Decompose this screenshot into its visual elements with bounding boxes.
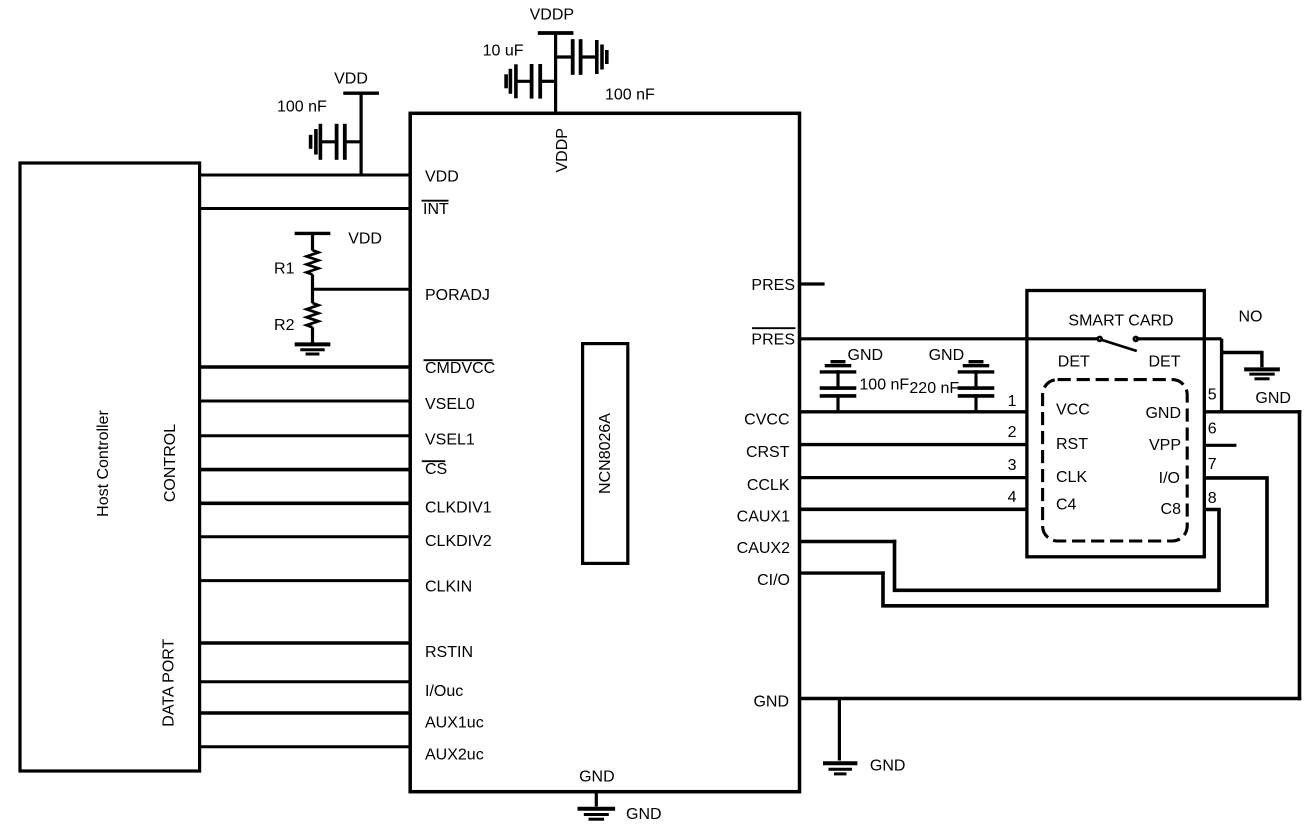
svg-text:CRST: CRST [746, 444, 790, 461]
ground (U1 bottom) [578, 807, 616, 811]
wire AUX1uc (host to U1) [198, 711, 412, 715]
wire CS (host to U1) [198, 468, 412, 472]
wire R2 to ground [311, 327, 314, 344]
wire CCLK (U1 to card pin 3) [798, 476, 1029, 479]
wire VDD (host to U1) [198, 174, 412, 177]
svg-text:Host Controller: Host Controller [95, 409, 112, 516]
svg-text:GND: GND [848, 347, 884, 364]
svg-text:CLKDIV1: CLKDIV1 [425, 499, 492, 516]
svg-text:3: 3 [1008, 457, 1017, 474]
wire CAUX2 (U1 to C8 route) [798, 540, 896, 543]
svg-text:CONTROL: CONTROL [162, 424, 179, 502]
svg-text:SMART CARD: SMART CARD [1068, 312, 1173, 329]
svg-text:CCLK: CCLK [747, 477, 790, 494]
wire node PORADJ to U1 [313, 288, 412, 291]
svg-text:CMDVCC: CMDVCC [425, 360, 495, 377]
wire CI/O (U1 to I/O route) [798, 571, 885, 574]
wire U1 bottom GND stub [595, 792, 598, 807]
svg-text:5: 5 [1208, 387, 1217, 404]
svg-text:220 nF: 220 nF [909, 380, 959, 397]
svg-text:CAUX2: CAUX2 [737, 540, 790, 557]
IC U1 NCN8026A outline [410, 113, 799, 791]
wire VSEL1 (host to U1) [198, 434, 412, 437]
svg-text:AUX2uc: AUX2uc [425, 747, 484, 764]
svg-text:CLKDIV2: CLKDIV2 [425, 533, 492, 550]
svg-text:GND: GND [753, 694, 789, 711]
svg-text:100 nF: 100 nF [277, 99, 327, 116]
svg-text:DET: DET [1058, 354, 1090, 371]
host controller block [20, 163, 200, 771]
svg-text:VDDP: VDDP [554, 128, 571, 172]
supply rail VDD (top) [343, 91, 379, 94]
capacitor C5 220 nF (CVCC) [974, 394, 977, 412]
svg-text:6: 6 [1208, 420, 1217, 437]
svg-text:C4: C4 [1056, 497, 1077, 514]
svg-text:100 nF: 100 nF [605, 87, 655, 104]
svg-text:PORADJ: PORADJ [425, 287, 490, 304]
svg-text:CS: CS [425, 461, 447, 478]
svg-text:RST: RST [1056, 436, 1088, 453]
svg-text:100 nF: 100 nF [859, 377, 909, 394]
wire CMDVCC (host to U1) [198, 365, 412, 369]
svg-text:INT: INT [423, 201, 449, 218]
capacitor C3 100 nF (VDDP decoupling) [556, 55, 573, 58]
wire I/Ouc (host to U1) [198, 680, 412, 683]
ground (R2) [295, 342, 331, 346]
wire VDD rail to R1 [311, 233, 314, 250]
svg-text:CLK: CLK [1056, 469, 1087, 486]
wire DET node down to GND net [1220, 339, 1223, 414]
wire RSTIN (host to U1) [198, 641, 412, 645]
supply rail VDDP [538, 31, 574, 35]
resistor R2 [307, 303, 319, 327]
switch DET right contact [1133, 336, 1140, 343]
wire INT (host to U1) [198, 207, 412, 210]
svg-text:RSTIN: RSTIN [425, 644, 473, 661]
svg-text:DET: DET [1149, 354, 1181, 371]
svg-text:VPP: VPP [1149, 437, 1181, 454]
svg-text:CLKIN: CLKIN [425, 579, 472, 596]
svg-text:I/O: I/O [1159, 470, 1180, 487]
resistor R1 [307, 250, 319, 274]
svg-text:GND: GND [929, 347, 965, 364]
svg-text:VDD: VDD [348, 231, 382, 248]
capacitor C4 100 nF (CVCC) [836, 394, 839, 412]
wire CLKDIV1 (host to U1) [198, 501, 412, 505]
card contact outline (dashed) [1043, 380, 1188, 541]
svg-text:VCC: VCC [1056, 402, 1090, 419]
wire card pin 5 GND to right bus [1204, 410, 1301, 413]
svg-text:VSEL0: VSEL0 [425, 396, 475, 413]
svg-text:GND: GND [870, 758, 906, 775]
svg-text:CI/O: CI/O [757, 572, 790, 589]
svg-text:NO: NO [1239, 309, 1263, 326]
svg-text:CVCC: CVCC [744, 411, 789, 428]
wire CAUX1 (U1 to card pin 4) [798, 507, 1029, 511]
wire CLKIN (host to U1) [198, 579, 412, 582]
switch DET blade (normally open) [1101, 340, 1137, 352]
svg-text:PRES: PRES [751, 332, 795, 349]
svg-text:GND: GND [579, 769, 615, 786]
wire CRST (U1 to card pin 2) [798, 443, 1029, 446]
supply rail VDD (divider) [295, 232, 331, 235]
capacitor C2 10 uF (VDDP bulk) [504, 74, 508, 88]
svg-text:AUX1uc: AUX1uc [425, 715, 484, 732]
svg-text:CAUX1: CAUX1 [737, 509, 790, 526]
wire PRES-bar to DET switch [798, 337, 1100, 340]
smart card connector block [1027, 291, 1204, 557]
svg-text:7: 7 [1208, 456, 1217, 473]
wire CVCC (U1 to card pin 1) [798, 410, 1029, 413]
wire card pin 8 C8 route [895, 510, 1220, 591]
svg-text:GND: GND [626, 806, 662, 823]
svg-text:R1: R1 [274, 261, 295, 278]
svg-text:10 uF: 10 uF [483, 42, 524, 59]
svg-text:8: 8 [1208, 490, 1217, 507]
svg-text:I/Ouc: I/Ouc [425, 683, 463, 700]
wire right GND bus (down) [1298, 410, 1302, 700]
wire branch to NO ground [1222, 351, 1262, 354]
svg-text:DATA PORT: DATA PORT [161, 638, 178, 726]
svg-text:VDD: VDD [425, 169, 459, 186]
svg-text:NCN8026A: NCN8026A [597, 413, 614, 494]
wire CLKDIV2 (host to U1) [198, 535, 412, 538]
svg-text:1: 1 [1008, 393, 1017, 410]
switch DET left contact [1096, 336, 1103, 343]
wire AUX2uc (host to U1) [198, 745, 412, 748]
svg-text:C8: C8 [1161, 501, 1182, 518]
wire GND branch down [838, 699, 841, 761]
ground (NO contact) [1244, 367, 1280, 371]
wire GND (U1 to right bus) [798, 697, 1301, 701]
svg-text:GND: GND [1255, 390, 1291, 407]
svg-text:VDDP: VDDP [530, 6, 574, 23]
NCN8026A inner label box [583, 344, 628, 564]
capacitor C1 100 nF (VDD decoupling) [309, 135, 313, 149]
ground (GND net) [823, 761, 857, 765]
svg-text:R2: R2 [274, 317, 295, 334]
wire R1 to node PORADJ [311, 275, 314, 304]
svg-text:4: 4 [1008, 489, 1017, 506]
svg-text:GND: GND [1145, 405, 1181, 422]
pin stub PRES [798, 282, 825, 285]
pin stub VPP (card pin 6) [1204, 444, 1236, 447]
svg-text:PRES: PRES [751, 277, 795, 294]
svg-text:VSEL1: VSEL1 [425, 432, 475, 449]
svg-text:VDD: VDD [334, 71, 368, 88]
svg-text:2: 2 [1008, 424, 1017, 441]
wire card pin 7 I/O route [883, 478, 1267, 606]
wire DET right contact to node [1136, 337, 1222, 340]
wire VSEL0 (host to U1) [198, 400, 412, 403]
